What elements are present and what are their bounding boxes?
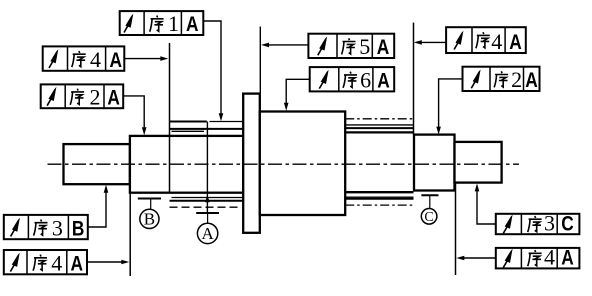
leader 序6 — [284, 79, 310, 111]
shaft section 6 — [414, 135, 455, 191]
callout box 序4 A top-right — [446, 27, 526, 54]
svg-text:2: 2 — [511, 67, 522, 92]
svg-text:A: A — [201, 224, 214, 243]
callout box 序2 A left — [41, 84, 124, 109]
svg-text:C: C — [424, 210, 433, 225]
section 3 thin line bottom — [172, 197, 244, 199]
section 3 pre-machining surface bottom — [170, 200, 244, 202]
callout box 序6 A — [310, 67, 395, 92]
section 5 surface top — [345, 131, 413, 133]
leader 序4 top-right — [414, 40, 446, 45]
leader 序4 left — [124, 56, 168, 61]
svg-text:4: 4 — [544, 245, 555, 270]
svg-text:A: A — [561, 247, 574, 270]
section 5 surface line bottom2 — [345, 198, 413, 200]
leader 序2 left — [123, 96, 146, 135]
callout box 序5 A — [308, 34, 394, 59]
shaft section 4 (large middle) — [260, 112, 345, 216]
datum A vertical line — [205, 122, 210, 213]
callout box 序4 A bottom-left — [4, 250, 87, 275]
datum C — [421, 195, 438, 225]
callout box 序1 A — [120, 11, 204, 36]
section 5 dash-dot bottom — [345, 204, 413, 206]
section 5 surface line top2 — [345, 127, 413, 129]
datum A — [196, 213, 219, 244]
svg-text:4: 4 — [491, 29, 502, 54]
leader 序3 C — [475, 183, 496, 224]
svg-text:A: A — [107, 86, 120, 109]
callout box 序3 C bottom-right — [496, 210, 580, 235]
svg-text:6: 6 — [360, 68, 371, 93]
extension line E4 at x=412.7 — [413, 23, 415, 135]
svg-text:C: C — [561, 212, 574, 235]
leader 序5 — [261, 43, 308, 48]
svg-text:A: A — [109, 49, 122, 72]
callout box 序3 B bottom-left — [4, 215, 88, 240]
section 3 pre-machining surface top — [170, 128, 244, 130]
section 3 thin allowance line top-right — [210, 121, 244, 123]
leader 序3 B — [88, 185, 109, 227]
section 3 allowance band top (raised) — [170, 121, 207, 123]
datum B — [138, 199, 161, 229]
flange — [243, 94, 260, 233]
shaft section 1 (left journal) — [64, 144, 130, 184]
svg-text:B: B — [144, 210, 155, 229]
svg-text:A: A — [509, 31, 522, 54]
callout box 序4 A left — [43, 46, 125, 72]
svg-text:B: B — [72, 217, 85, 240]
svg-text:4: 4 — [51, 250, 62, 275]
leader 序2 right — [436, 79, 462, 135]
callout box 序2 A right — [463, 67, 540, 92]
section 5 surface bottom — [345, 191, 413, 193]
extension line E5 at x=455.5 — [455, 183, 457, 275]
svg-text:4: 4 — [90, 47, 101, 72]
svg-text:A: A — [71, 252, 84, 275]
svg-text:5: 5 — [359, 34, 370, 59]
leader 序4 bottom-right — [456, 256, 496, 261]
leader 序1 — [203, 21, 223, 121]
leader 序4 bottom-left — [87, 260, 129, 265]
section 5 thin line bottom — [345, 196, 413, 198]
section 3 dashed allowance bottom — [170, 206, 239, 208]
extension line E3 above flange — [259, 27, 261, 94]
svg-text:A: A — [377, 36, 390, 59]
section 5 thin line top — [345, 124, 413, 126]
extension line E2 at x=130.2 — [129, 193, 131, 276]
shaft section 7 (right journal) — [455, 142, 502, 183]
svg-text:A: A — [186, 13, 199, 36]
svg-text:3: 3 — [52, 215, 63, 240]
svg-text:A: A — [525, 69, 538, 92]
svg-text:3: 3 — [544, 210, 555, 235]
centerline — [48, 163, 520, 165]
callout box 序4 A bottom-right — [496, 245, 580, 270]
section 5 dash-dot top — [345, 118, 413, 120]
shaft section 2-3 base cylinder — [130, 136, 243, 193]
svg-text:2: 2 — [90, 84, 101, 109]
section 3 thin line top — [172, 130, 205, 132]
extension line E1 at x=169.5 — [169, 43, 171, 193]
svg-text:1: 1 — [168, 11, 179, 36]
svg-text:A: A — [377, 70, 390, 93]
